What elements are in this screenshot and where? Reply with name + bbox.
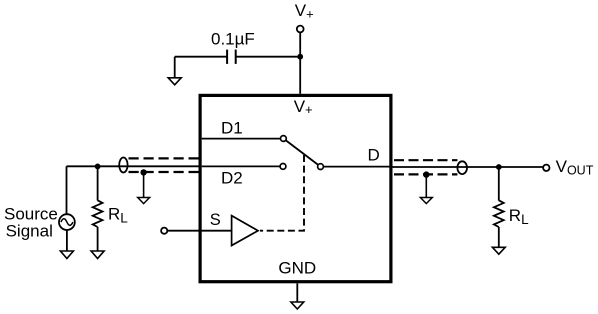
svg-text:Signal: Signal [6,221,53,240]
svg-text:D2: D2 [221,169,243,188]
svg-text:D1: D1 [221,118,243,137]
svg-text:GND: GND [278,258,316,277]
svg-text:0.1µF: 0.1µF [211,30,255,49]
svg-text:D: D [368,145,380,164]
svg-text:S: S [210,211,221,229]
